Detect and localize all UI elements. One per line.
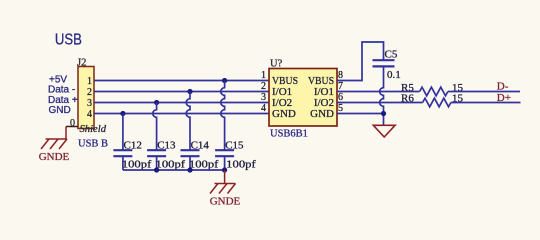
svg-text:4: 4: [261, 103, 266, 114]
connector J2 body: [78, 67, 94, 129]
svg-text:C5: C5: [385, 49, 398, 61]
svg-text:8: 8: [338, 70, 343, 81]
wire row1 J2 pin1 to U2 pin1: [94, 80, 269, 82]
junction dot rail/C14: [187, 167, 192, 172]
wire ground rail under capacitors: [123, 169, 225, 171]
svg-text:100pf: 100pf: [226, 159, 256, 171]
junction dot pin5/ground: [381, 111, 386, 116]
wire R5 to D-: [448, 91, 520, 93]
wire U2 pin7 to D-: [337, 91, 420, 93]
ground symbol (triangle): [373, 125, 395, 137]
svg-text:D-: D-: [497, 81, 509, 93]
power port GNDE (left): [41, 139, 67, 149]
svg-text:C12: C12: [124, 140, 142, 152]
wire R6 to D+: [451, 102, 521, 104]
wire U2 pin8 up and over to C5: [337, 42, 384, 81]
svg-text:5: 5: [338, 103, 343, 114]
wire C5 down with hops over row2 row3 to ground: [380, 66, 384, 125]
svg-text:C13: C13: [157, 140, 176, 152]
wire row2 J2 pin2 to U2 pin2: [94, 91, 269, 93]
junction dot row4/C12: [120, 111, 125, 116]
resistor R6: [423, 98, 451, 107]
IC U2 body: [269, 69, 337, 127]
svg-text:USB B: USB B: [78, 139, 108, 150]
junction dot rail/C13: [154, 167, 159, 172]
junction dot row1/C15: [222, 78, 227, 83]
power port GNDE (bottom): [210, 184, 236, 194]
svg-text:GNDE: GNDE: [210, 196, 241, 208]
capacitor C12: [113, 140, 151, 171]
svg-text:Shield: Shield: [80, 124, 107, 135]
svg-text:100pf: 100pf: [189, 159, 219, 171]
svg-text:2: 2: [87, 87, 92, 98]
capacitor C13: [147, 140, 185, 171]
svg-text:GND: GND: [310, 108, 334, 120]
resistor R5: [420, 87, 448, 96]
junction dot rail/GNDE: [222, 167, 227, 172]
svg-text:1: 1: [87, 76, 92, 87]
wire U2 pin5 to ground node: [337, 113, 384, 115]
svg-text:GNDE: GNDE: [39, 151, 70, 163]
svg-text:1: 1: [261, 70, 266, 81]
capacitor C5: [373, 49, 401, 82]
capacitor C15: [215, 140, 256, 171]
svg-text:D+: D+: [497, 92, 511, 104]
svg-text:100pf: 100pf: [156, 159, 186, 171]
wire row3 J2 pin3 to U2 pin3: [94, 102, 269, 104]
capacitor C14: [181, 140, 219, 171]
wire drop to C15 with hops over row2 row3 row4: [221, 81, 225, 151]
wire drop to C14 with hops over row3 row4: [186, 92, 190, 151]
wire U2 pin6 to R6: [337, 102, 423, 104]
svg-text:USB6B1: USB6B1: [270, 129, 308, 140]
J2 shield pin stub: [66, 126, 78, 128]
svg-text:3: 3: [261, 92, 266, 103]
svg-text:GND: GND: [272, 108, 296, 120]
svg-text:USB: USB: [55, 32, 82, 49]
svg-text:3: 3: [87, 98, 92, 109]
wire drop to C13 with hop over row4: [153, 103, 157, 151]
svg-text:GND: GND: [49, 105, 71, 116]
junction dot row3/C13: [154, 100, 159, 105]
svg-text:6: 6: [338, 92, 343, 103]
svg-text:100pf: 100pf: [122, 159, 152, 171]
svg-text:0.1: 0.1: [387, 69, 401, 81]
svg-text:C14: C14: [191, 140, 210, 152]
junction dot row2/C14: [187, 89, 192, 94]
wire row4 J2 pin4 to U2 pin4: [94, 113, 269, 115]
svg-text:4: 4: [87, 109, 92, 120]
wire GNDE drop (bottom): [224, 170, 226, 184]
svg-text:2: 2: [261, 81, 266, 92]
wire GNDE drop from shield: [65, 127, 67, 140]
wire drop to C12: [122, 114, 124, 151]
svg-text:R6: R6: [401, 93, 414, 105]
svg-text:7: 7: [338, 81, 343, 92]
svg-text:C15: C15: [225, 140, 244, 152]
svg-text:0: 0: [70, 118, 75, 129]
